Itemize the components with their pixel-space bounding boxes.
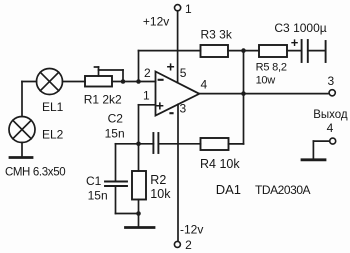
svg-text:4: 4 [201, 78, 208, 92]
svg-text:C3 1000µ: C3 1000µ [274, 21, 326, 35]
svg-text:C1: C1 [86, 174, 102, 188]
svg-text:10w: 10w [256, 75, 276, 87]
svg-text:+: + [167, 59, 175, 75]
svg-text:R3 3k: R3 3k [201, 27, 233, 41]
svg-text:R5 8,2: R5 8,2 [256, 61, 287, 73]
svg-text:2: 2 [185, 238, 192, 252]
svg-text:10k: 10k [150, 187, 171, 201]
svg-text:+: + [156, 98, 164, 114]
svg-text:3: 3 [180, 102, 187, 116]
svg-text:1: 1 [185, 2, 192, 16]
svg-text:4: 4 [327, 121, 334, 135]
svg-text:5: 5 [180, 66, 187, 80]
svg-text:EL1: EL1 [42, 100, 64, 114]
svg-text:R2: R2 [150, 173, 166, 187]
svg-text:-12v: -12v [180, 223, 203, 237]
svg-text:СМН 6.3x50: СМН 6.3x50 [5, 167, 65, 179]
svg-text:Выход: Выход [313, 109, 348, 121]
svg-text:R4 10k: R4 10k [200, 157, 240, 171]
svg-text:TDA2030A: TDA2030A [255, 183, 311, 197]
svg-text:15n: 15n [88, 188, 108, 202]
svg-text:2: 2 [144, 66, 151, 80]
svg-text:+12v: +12v [143, 15, 169, 29]
svg-text:R1 2k2: R1 2k2 [84, 93, 122, 107]
svg-text:+: + [291, 35, 299, 50]
svg-text:C2: C2 [108, 111, 124, 125]
svg-text:DA1: DA1 [216, 182, 241, 197]
svg-text:1: 1 [143, 89, 150, 103]
svg-text:15n: 15n [105, 127, 125, 141]
svg-text:3: 3 [328, 74, 335, 88]
svg-text:EL2: EL2 [42, 128, 64, 142]
